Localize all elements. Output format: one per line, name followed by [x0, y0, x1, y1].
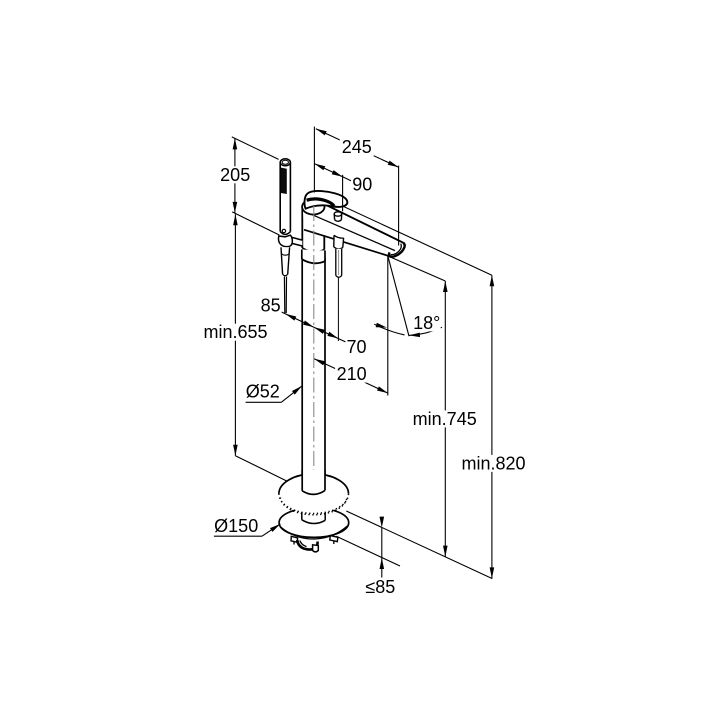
centre axis line [313, 206, 315, 482]
body top cap [302, 199, 324, 214]
extension line faucet top to min.820 [315, 193, 492, 275]
dim min655 extension bottom [235, 456, 287, 482]
label 90 [351, 176, 373, 193]
label min655 [203, 324, 269, 341]
label 245 [340, 138, 374, 156]
hand shower wand [280, 162, 290, 234]
svg-text:Ø52: Ø52 [246, 382, 280, 402]
label le85 [365, 579, 395, 596]
dim min745 line [444, 281, 446, 557]
label min820 [461, 455, 527, 472]
standpipe column [302, 258, 325, 495]
dim 245 line [316, 129, 399, 168]
dim 245 left extension [313, 127, 315, 193]
outlet tube [334, 235, 344, 248]
label dia52 [245, 383, 281, 400]
standpipe foot [302, 470, 325, 494]
hose connector [281, 247, 290, 275]
spout [303, 204, 405, 257]
dim 210 line [314, 359, 388, 393]
outlet tube centerline extension [337, 278, 339, 342]
dim 205 extension bottom [232, 212, 279, 235]
dim 90 line [314, 164, 342, 177]
label min745 [412, 410, 478, 427]
svg-text:18°: 18° [413, 313, 440, 333]
label 205 [219, 166, 252, 183]
diverter knob [334, 214, 342, 221]
svg-text:min.655: min.655 [203, 322, 267, 342]
mixer body [302, 208, 324, 252]
18 deg ray [388, 256, 409, 336]
label 70 [346, 339, 368, 356]
svg-text:85: 85 [261, 295, 281, 315]
dim 90 right extension [342, 175, 344, 212]
dim 85 line [278, 310, 314, 327]
dim 205 extension top [232, 137, 279, 160]
shower hose [283, 277, 285, 314]
svg-text:90: 90 [352, 175, 372, 195]
dim min655 line [234, 214, 236, 455]
dim min820 line [491, 275, 493, 578]
floor line [346, 511, 492, 579]
svg-text:205: 205 [220, 165, 250, 185]
spout end face [389, 243, 405, 257]
handle lever [304, 191, 347, 209]
label 210 [335, 366, 368, 383]
label 85 [260, 297, 282, 314]
dim 210 extension [387, 257, 389, 396]
svg-text:min.745: min.745 [413, 409, 477, 429]
dim min745 extension [390, 257, 445, 281]
mounting hardware [291, 536, 298, 542]
wand button [282, 229, 285, 232]
lower base disc [279, 508, 349, 538]
dim 245 right extension [398, 166, 400, 246]
dim le85 [381, 528, 383, 558]
upper base disc [279, 474, 349, 514]
svg-text:210: 210 [337, 364, 367, 384]
svg-text:min.820: min.820 [461, 453, 525, 473]
label dia150 [212, 518, 260, 535]
base neck [302, 505, 325, 523]
shower holder [292, 237, 302, 246]
svg-text:70: 70 [346, 337, 366, 357]
svg-text:Ø150: Ø150 [214, 516, 258, 536]
dim 205 line [234, 138, 236, 213]
svg-text:≤85: ≤85 [365, 577, 395, 597]
18 deg arc [374, 324, 404, 335]
wand spray face [281, 168, 287, 194]
connection line [336, 536, 400, 566]
dim 70 line [314, 327, 346, 342]
svg-text:245: 245 [342, 137, 372, 157]
label 18deg [413, 314, 441, 331]
connecting nut [302, 250, 325, 263]
